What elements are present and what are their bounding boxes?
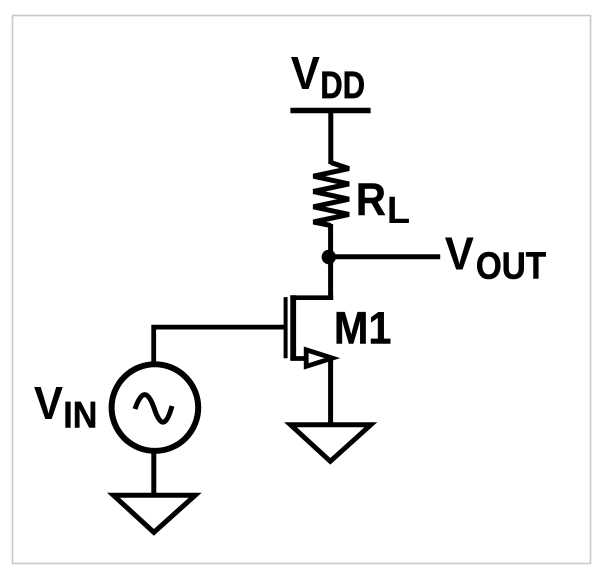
svg-text:V: V	[445, 227, 474, 279]
node VOUT junction dot	[322, 250, 336, 264]
source VIN (sine voltage source)	[112, 364, 199, 451]
net label VDD	[291, 47, 365, 107]
svg-text:L: L	[387, 190, 410, 232]
power rail VDD	[290, 108, 370, 114]
svg-text:V: V	[34, 377, 63, 429]
wire resistor to drain	[328, 224, 333, 300]
svg-text:OUT: OUT	[476, 244, 546, 287]
ground (VIN)	[113, 495, 195, 532]
svg-text:V: V	[291, 47, 320, 99]
net label VOUT	[445, 227, 546, 287]
svg-text:DD: DD	[320, 65, 365, 107]
label RL	[356, 176, 410, 232]
svg-text:IN: IN	[63, 394, 97, 436]
ground (M1 source)	[291, 425, 371, 462]
drain lead	[290, 295, 333, 300]
svg-text:R: R	[356, 176, 386, 226]
source lead	[290, 356, 331, 361]
svg-text:M1: M1	[334, 304, 391, 354]
net label VIN	[34, 377, 97, 436]
wire VDD rail to resistor	[328, 108, 333, 164]
wire node to VOUT	[328, 254, 440, 259]
gate bar	[284, 297, 288, 358]
transistor M1 (NMOS)	[286, 295, 334, 366]
source arrow	[306, 350, 332, 367]
resistor RL	[313, 163, 349, 226]
wire source to ground	[328, 358, 333, 425]
wire VIN to ground	[151, 451, 156, 497]
wire gate	[154, 327, 287, 366]
channel bar	[290, 295, 296, 360]
